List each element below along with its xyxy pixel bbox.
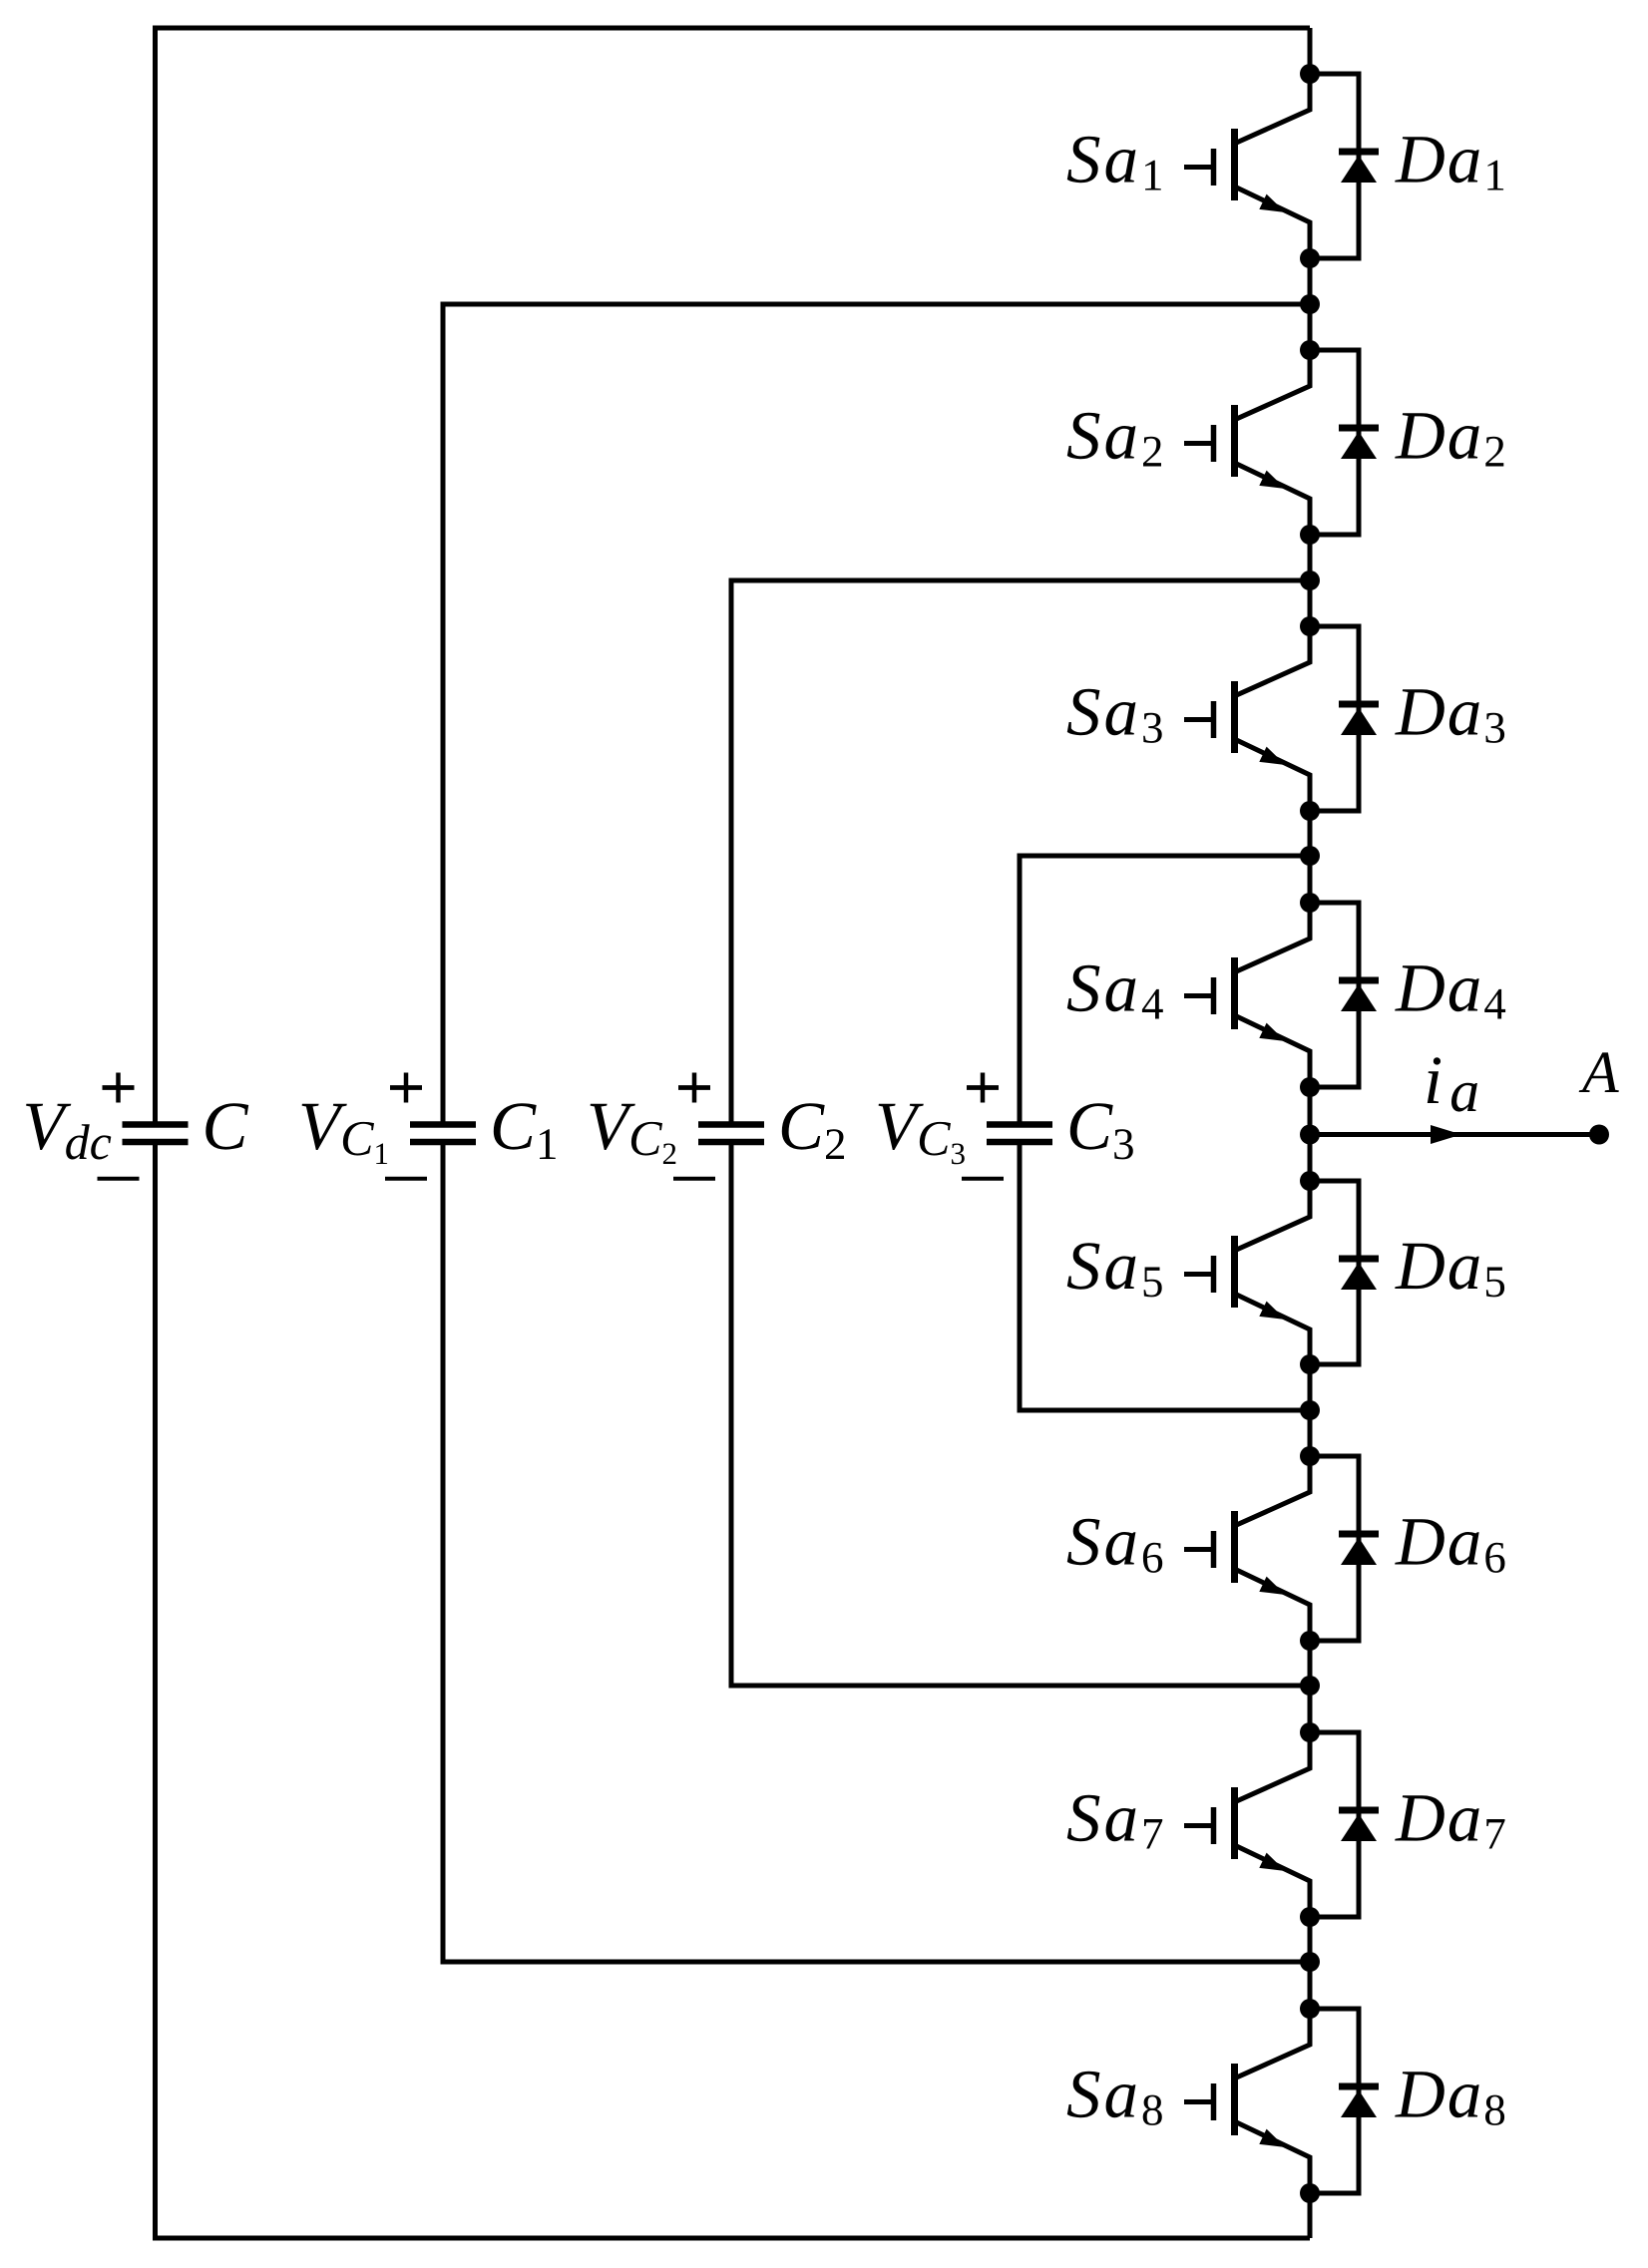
junction: C1 top rail tap — [1300, 294, 1320, 314]
junction: collector node of Sa4 — [1300, 893, 1320, 913]
label C1 capacitance — [494, 1103, 556, 1159]
diode Da5 — [1310, 1181, 1379, 1364]
label VC2 voltage — [591, 1104, 676, 1164]
label Sa6 — [1067, 1519, 1162, 1573]
junction: collector node of Sa3 — [1300, 616, 1320, 636]
label Sa7 — [1067, 1795, 1162, 1849]
wire: C1 loop upper run — [443, 304, 1310, 1122]
junction: emitter node of Sa4 — [1300, 1077, 1320, 1097]
wire: switch-chain vertical segment — [1308, 1917, 1313, 2009]
capacitor C1 — [410, 1125, 476, 1143]
transistor Sa6 (IGBT) — [1184, 1456, 1310, 1641]
label Da5 — [1395, 1244, 1504, 1298]
diode Da8 — [1310, 2009, 1379, 2193]
junction: collector node of Sa2 — [1300, 340, 1320, 360]
polarity + of C — [103, 1073, 135, 1103]
label ia load current — [1428, 1057, 1477, 1111]
wire: switch-chain vertical segment — [1308, 1641, 1313, 1732]
wire: switch-chain vertical segment — [1308, 1087, 1313, 1181]
diode Da6 — [1310, 1456, 1379, 1641]
junction: collector node of Sa1 — [1300, 64, 1320, 84]
label Da7 — [1395, 1795, 1504, 1848]
label Sa1 — [1067, 137, 1161, 190]
label VC3 voltage — [879, 1104, 965, 1165]
wire: switch-chain vertical segment — [1308, 535, 1313, 626]
polarity - of C3 — [962, 1177, 1004, 1181]
label Da1 — [1395, 137, 1503, 189]
polarity + of C3 — [967, 1073, 999, 1103]
wire: C3 loop upper run — [1020, 856, 1310, 1122]
wire: switch-chain vertical segment — [1308, 2193, 1313, 2238]
transistor Sa5 (IGBT) — [1184, 1181, 1310, 1364]
junction: collector node of Sa8 — [1300, 1999, 1320, 2019]
wire: C3 loop lower run — [1020, 1145, 1310, 1410]
capacitor C — [123, 1125, 189, 1143]
wire: switch-chain vertical segment — [1308, 1364, 1313, 1456]
polarity - of C1 — [385, 1177, 427, 1181]
label Da8 — [1395, 2072, 1504, 2125]
label Da4 — [1395, 965, 1505, 1018]
transistor Sa4 (IGBT) — [1184, 903, 1310, 1087]
terminal A — [1589, 1125, 1609, 1145]
label Da3 — [1395, 689, 1504, 743]
polarity + of C2 — [678, 1073, 710, 1103]
polarity - of C — [98, 1177, 140, 1181]
junction: emitter node of Sa1 — [1300, 248, 1320, 268]
junction: C1 bottom rail tap — [1300, 1952, 1320, 1972]
junction: emitter node of Sa8 — [1300, 2183, 1320, 2203]
diode Da7 — [1310, 1732, 1379, 1917]
label Sa4 — [1067, 965, 1163, 1019]
wire: dc bus lower run — [156, 1145, 1311, 2238]
capacitor C2 — [698, 1125, 764, 1143]
label Sa5 — [1067, 1243, 1162, 1297]
polarity + of C1 — [390, 1073, 422, 1103]
node A output junction — [1300, 1125, 1320, 1145]
diode Da2 — [1310, 350, 1379, 535]
label C2 capacitance — [782, 1103, 844, 1159]
transistor Sa7 (IGBT) — [1184, 1732, 1310, 1917]
wire: switch-chain vertical segment — [1308, 258, 1313, 350]
transistor Sa1 (IGBT) — [1184, 74, 1310, 258]
label VC1 voltage — [302, 1104, 388, 1164]
transistor Sa3 (IGBT) — [1184, 626, 1310, 811]
junction: emitter node of Sa2 — [1300, 525, 1320, 545]
diode Da1 — [1310, 74, 1379, 258]
junction: emitter node of Sa5 — [1300, 1354, 1320, 1374]
wire: output lead to terminal A — [1310, 1132, 1599, 1137]
polarity - of C2 — [673, 1177, 715, 1181]
junction: C3 top rail tap — [1300, 846, 1320, 866]
junction: collector node of Sa7 — [1300, 1722, 1320, 1742]
junction: emitter node of Sa6 — [1300, 1631, 1320, 1651]
junction: emitter node of Sa3 — [1300, 801, 1320, 821]
label Da2 — [1395, 413, 1503, 466]
label Da6 — [1395, 1519, 1504, 1573]
wire: switch-chain vertical segment — [1308, 811, 1313, 903]
label C3 capacitance — [1070, 1103, 1133, 1159]
junction: emitter node of Sa7 — [1300, 1907, 1320, 1927]
label C capacitance — [206, 1103, 248, 1149]
wire: C2 loop lower run — [731, 1145, 1310, 1686]
transistor Sa2 (IGBT) — [1184, 350, 1310, 535]
diode Da3 — [1310, 626, 1379, 811]
diode Da4 — [1310, 903, 1379, 1087]
label Sa8 — [1067, 2072, 1162, 2125]
label Sa3 — [1067, 689, 1162, 743]
wire: dc bus upper run — [156, 28, 1311, 1122]
label A phase terminal — [1579, 1052, 1619, 1092]
wire: C1 loop lower run — [443, 1145, 1310, 1962]
label Vdc voltage — [26, 1104, 111, 1160]
capacitor C3 — [987, 1125, 1052, 1143]
junction: C3 bottom rail tap — [1300, 1400, 1320, 1420]
junction: C2 bottom rail tap — [1300, 1676, 1320, 1696]
transistor Sa8 (IGBT) — [1184, 2009, 1310, 2193]
junction: collector node of Sa5 — [1300, 1171, 1320, 1191]
junction: collector node of Sa6 — [1300, 1446, 1320, 1466]
junction: C2 top rail tap — [1300, 570, 1320, 590]
wire: C2 loop upper run — [731, 580, 1310, 1122]
label Sa2 — [1067, 413, 1161, 467]
arrow: load current direction — [1431, 1125, 1461, 1144]
wire: switch-chain vertical segment — [1308, 28, 1313, 74]
